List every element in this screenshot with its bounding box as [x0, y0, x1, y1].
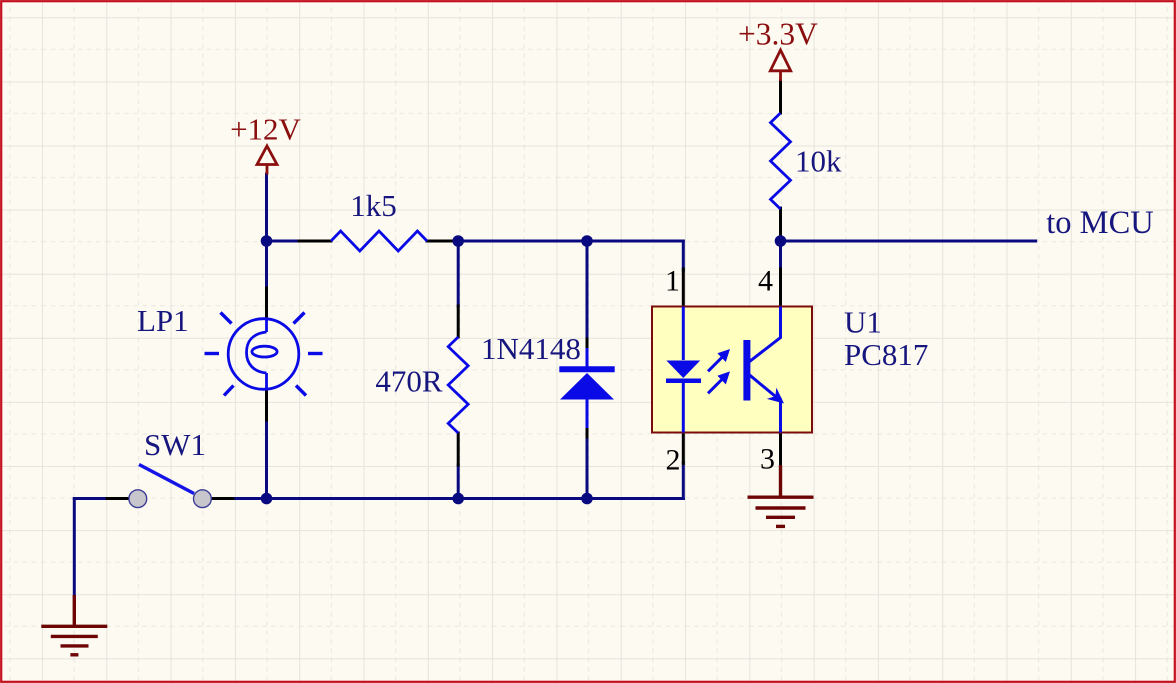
- wire: 10k to node: [779, 208, 782, 241]
- diode cathode bar: [559, 366, 614, 372]
- node: 470R bottom: [452, 493, 464, 505]
- pin: lamp top: [265, 288, 268, 319]
- opto transistor base bar: [743, 340, 750, 401]
- svg-text:2: 2: [666, 444, 681, 477]
- svg-text:3: 3: [760, 443, 775, 476]
- svg-text:to MCU: to MCU: [1046, 205, 1153, 241]
- wire: switch ground drop: [73, 499, 76, 597]
- resistor 1k5 (horizontal body): [331, 231, 427, 251]
- wire: diode bottom connection: [586, 437, 589, 499]
- pin: switch right: [212, 497, 234, 500]
- pin: switch left: [107, 497, 129, 500]
- pin: diode bottom: [586, 427, 589, 437]
- wire: 470R bottom connection: [457, 465, 460, 499]
- opto light arrow shafts: [708, 357, 722, 371]
- svg-text:U1: U1: [844, 305, 882, 340]
- lamp bottom stub: [265, 373, 268, 390]
- svg-text:4: 4: [758, 265, 773, 298]
- wire: +12V stem to top rail: [265, 174, 268, 241]
- pin: 10k top: [779, 81, 782, 113]
- switch lever: [139, 465, 194, 494]
- opto light arrow 1: [717, 349, 730, 384]
- opto LED leads: [682, 307, 685, 361]
- wire: bottom rail switch to lamp node: [232, 497, 267, 500]
- pin: lamp bottom: [265, 389, 268, 420]
- svg-text:SW1: SW1: [144, 427, 206, 462]
- pin: opto pin1: [682, 269, 685, 307]
- pin: opto pin2: [682, 433, 685, 464]
- wire: lamp branch upper: [265, 241, 268, 289]
- wire: top rail left segment (node to 1k5 left pin): [267, 240, 301, 243]
- wire: opto pin2 rise: [682, 463, 685, 499]
- node: lamp bottom rail: [261, 493, 273, 505]
- lamp top stub: [265, 319, 268, 333]
- resistor 470R (vertical body): [448, 337, 468, 433]
- lamp filament inner ellipse: [252, 346, 277, 357]
- pin: 1k5 left: [299, 240, 331, 243]
- node: 10k / pin4 / to MCU: [775, 235, 787, 247]
- switch contact left: [129, 490, 147, 508]
- diode body leads: [586, 348, 589, 368]
- power +12V arrow: [257, 146, 277, 175]
- svg-text:PC817: PC817: [844, 337, 928, 372]
- lamp rays: [205, 313, 323, 396]
- pin: opto pin4: [779, 269, 782, 307]
- svg-text:1k5: 1k5: [350, 188, 397, 223]
- ground GND1 (switch): [41, 595, 107, 655]
- diode 1N4148 (body): [559, 348, 614, 428]
- lamp glass circle: [228, 319, 299, 390]
- wire: diode top connection: [586, 241, 589, 340]
- wire: 470R top connection: [457, 241, 460, 306]
- opto body box: [652, 307, 812, 433]
- opto emitter: [749, 375, 780, 433]
- diode anode triangle: [560, 373, 614, 400]
- svg-text:+12V: +12V: [230, 112, 301, 147]
- svg-text:10k: 10k: [795, 144, 842, 179]
- power +3.3V arrow: [770, 50, 790, 81]
- wire: to MCU: [781, 240, 1036, 243]
- opto LED cathode bar: [666, 379, 701, 384]
- resistor 10k (vertical body): [771, 113, 791, 209]
- node: diode bottom: [581, 493, 593, 505]
- svg-text:LP1: LP1: [137, 303, 189, 338]
- opto emitter arrowhead: [767, 388, 784, 404]
- node: 1k5 / 470R top: [452, 235, 464, 247]
- wire: bottom rail left of switch: [74, 497, 108, 500]
- svg-text:1N4148: 1N4148: [481, 331, 581, 366]
- pin: 10k bottom: [779, 209, 782, 242]
- wire: opto pin1 drop: [682, 241, 685, 270]
- pin: opto pin3: [779, 433, 782, 467]
- wire: lamp branch lower: [265, 420, 268, 499]
- wire: top rail mid segment (1k5 right pin to opto pin1 corner): [457, 240, 683, 243]
- opto LED triangle: [666, 361, 700, 379]
- pin: diode top: [586, 339, 589, 350]
- node: +12V / lamp / 1k5: [261, 235, 273, 247]
- switch contact right: [194, 490, 212, 508]
- pin: 1k5 right: [427, 240, 458, 243]
- wire: bottom rail main: [267, 497, 684, 500]
- svg-text:+3.3V: +3.3V: [738, 16, 818, 51]
- wire: node to opto pin4: [779, 241, 782, 270]
- lamp filament loop: [247, 332, 267, 373]
- pin: 470R top: [457, 306, 460, 337]
- svg-text:1: 1: [665, 265, 680, 298]
- lamp LP1 (bulb symbol): [228, 319, 299, 390]
- svg-text:470R: 470R: [375, 364, 443, 399]
- pin: 470R bottom: [457, 433, 460, 465]
- opto collector: [749, 307, 780, 362]
- node: diode top: [581, 235, 593, 247]
- ground GND2 (opto pin3): [748, 465, 814, 526]
